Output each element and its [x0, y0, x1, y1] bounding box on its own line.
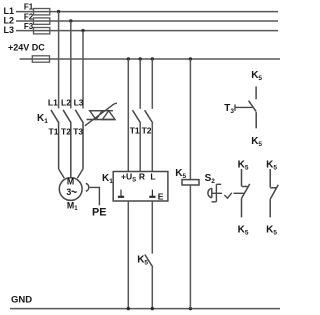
ground symbol left in box [118, 190, 124, 197]
svg-text:GND: GND [11, 294, 32, 305]
wire box to GND right lower [151, 267, 153, 309]
wire motor feed bend left [59, 169, 65, 178]
svg-text:T1: T1 [49, 126, 59, 136]
svg-text:L: L [150, 172, 155, 182]
wire box to GND right upper [151, 201, 153, 254]
contact K5 (reset) blade [145, 255, 153, 268]
svg-text:F1: F1 [24, 3, 34, 12]
ground symbol right in box (E) [149, 190, 155, 197]
contact K5 (NC channel 1) [238, 160, 250, 237]
wire L drop lower [151, 123, 153, 172]
contact K5 (NC channel 2) [266, 160, 278, 237]
svg-text:L1: L1 [48, 97, 58, 107]
junction dot L3 [81, 29, 84, 32]
contact T2 blade [145, 110, 153, 123]
junction dot +24V tap R [139, 57, 142, 60]
junction dot +24V tap K5 coil [189, 57, 192, 60]
svg-text:T2: T2 [61, 126, 71, 136]
switch S2 detent symbol [212, 184, 222, 202]
svg-text:F3: F3 [24, 22, 34, 31]
contactor K1 pole L3/T3 [75, 110, 83, 169]
svg-text:PE: PE [92, 207, 106, 219]
fuse on +24V DC line [32, 56, 49, 62]
device K1 box [113, 172, 168, 202]
wire L drop upper [151, 59, 153, 109]
linkage S2 to contact [212, 193, 244, 198]
svg-text:+24V DC: +24V DC [8, 43, 45, 53]
wire K5 coil lower [189, 185, 191, 309]
contact T1 blade [133, 110, 141, 123]
svg-text:T3: T3 [73, 126, 83, 136]
wire +24V DC bus [20, 58, 280, 60]
svg-text:L2: L2 [4, 16, 15, 26]
fuse F3 [24, 22, 50, 34]
junction dot GND middle [151, 307, 154, 310]
wire R drop lower [139, 123, 141, 172]
wire L1 bus [16, 11, 278, 13]
contactor K1 pole L2/T2 [63, 110, 71, 178]
switch S2 mushroom head [208, 188, 212, 198]
svg-text:T1: T1 [130, 126, 140, 136]
wire L3 bus [16, 30, 278, 32]
triac symbol (hybrid switching) [85, 103, 117, 126]
junction dot L2 [69, 19, 72, 22]
wire K5 coil upper [189, 59, 191, 180]
wire phase drop 1 [58, 12, 60, 109]
junction dot GND left [127, 307, 130, 310]
svg-text:3: 3 [66, 187, 71, 197]
fuse F2 [24, 12, 50, 24]
svg-text:L2: L2 [61, 97, 71, 107]
wire phase drop 3 [82, 31, 84, 109]
svg-text:F2: F2 [24, 12, 34, 21]
wire motor feed bend right [77, 169, 83, 178]
relay K5 coil [182, 180, 199, 185]
svg-text:L3: L3 [4, 25, 15, 35]
wire GND bus [10, 308, 280, 310]
svg-text:E: E [158, 191, 164, 201]
fuse F1 [24, 3, 50, 15]
contactor K1 pole L1/T1 [51, 110, 59, 169]
junction dot +24V tap Us [127, 57, 130, 60]
svg-text:M: M [67, 177, 74, 187]
wire box to GND left [127, 201, 129, 309]
junction dot GND right [189, 307, 192, 310]
junction dot +24V tap L [151, 57, 154, 60]
wire +Us drop [127, 59, 129, 172]
wire phase drop 2 [70, 21, 72, 108]
junction dot L1 [57, 10, 60, 13]
motor M1 [59, 177, 82, 213]
contact K5 timed by T3 [224, 70, 262, 148]
svg-text:T2: T2 [142, 126, 152, 136]
wire motor PE lead [90, 187, 100, 205]
svg-text:L3: L3 [74, 97, 84, 107]
wire L2 bus [16, 20, 278, 22]
svg-text:R: R [139, 172, 145, 182]
thermistor arc on motor [86, 183, 89, 191]
wire R drop upper [139, 59, 141, 109]
